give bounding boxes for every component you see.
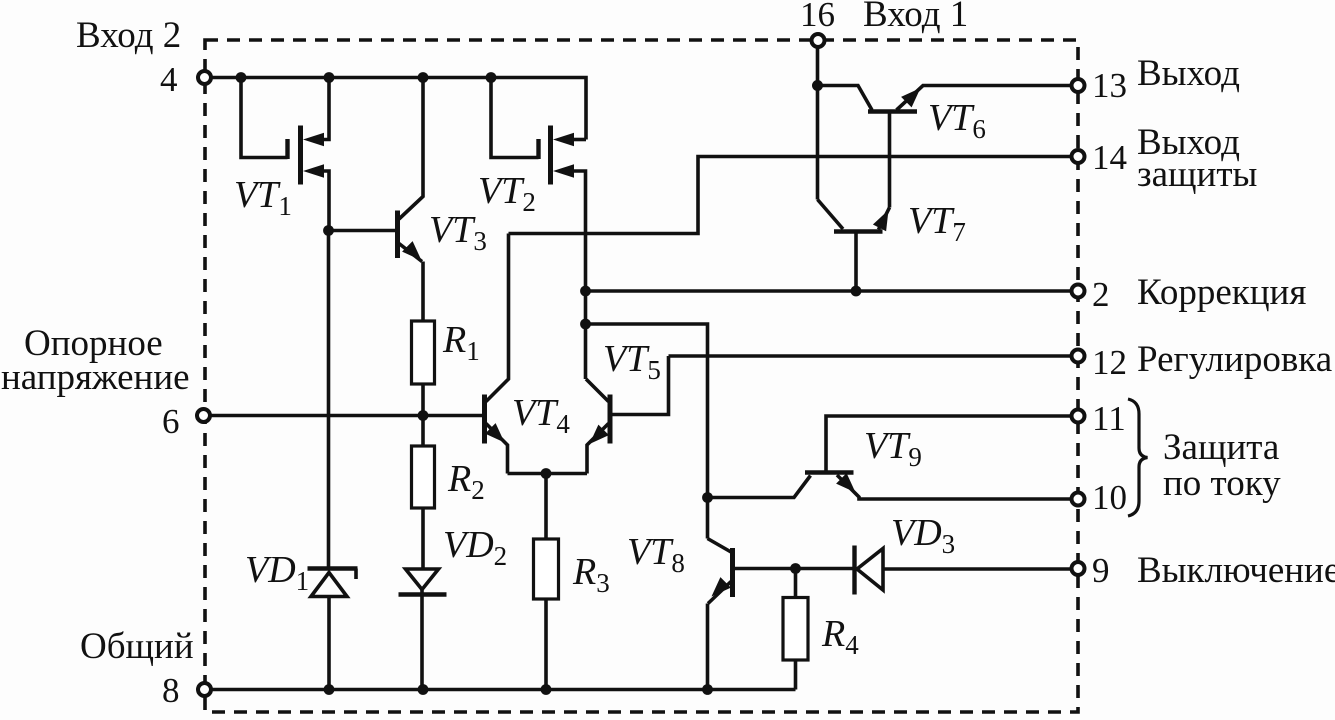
resistor R1 — [412, 321, 435, 384]
transistor VT2 — [491, 78, 586, 380]
transistor VT5 — [586, 356, 669, 474]
svg-text:14: 14 — [1092, 138, 1127, 177]
svg-text:10: 10 — [1092, 478, 1127, 517]
junction VT1 drain on top rail — [324, 72, 335, 83]
wire R3 to bottom rail — [544, 599, 548, 690]
brace pins 11-10 — [1128, 399, 1148, 516]
wire pin 12 line (Регулировка) — [669, 354, 1079, 358]
pin 9 terminal — [1072, 562, 1085, 575]
svg-text:12: 12 — [1092, 343, 1127, 382]
diode VD2 — [399, 569, 447, 690]
junction VT2 gate on top rail — [486, 72, 497, 83]
junction VT7 base on correction line — [851, 286, 862, 297]
resistor R4 — [783, 598, 808, 661]
wire top rail from pin 4 to VT2 drain — [205, 78, 587, 140]
resistor R2 — [412, 446, 435, 508]
junction VT1 source / VT3 base — [323, 225, 334, 236]
junction VT3 collector on top rail — [418, 72, 429, 83]
pin 16 terminal — [812, 34, 825, 47]
svg-text:6: 6 — [162, 402, 180, 441]
junction VD1 on bottom rail — [324, 684, 335, 695]
pin 2 terminal — [1072, 285, 1085, 298]
svg-text:8: 8 — [162, 671, 180, 710]
junction VT9 collector — [702, 492, 713, 503]
junction VT8 emitter on bottom rail — [702, 684, 713, 695]
pin 12 terminal — [1072, 350, 1085, 363]
resistor R3 — [534, 539, 559, 599]
junction VT6 collector on pin 16 riser — [812, 80, 823, 91]
transistor VT9 — [708, 416, 1079, 499]
transistor VT1 — [241, 78, 329, 231]
junction R1 / R2 on pin 6 line — [418, 410, 429, 421]
diode VD3 — [796, 546, 1079, 595]
pin 11 terminal — [1072, 410, 1085, 423]
transistor VT8 — [708, 539, 796, 690]
wire VT4-VT5 emitter join — [508, 472, 588, 476]
wire node to VT8 collector column — [586, 324, 708, 539]
junction VT2 source on correction line — [580, 286, 591, 297]
wire VD1 branch — [327, 231, 331, 569]
zener diode VD1 — [308, 569, 358, 690]
svg-text:9: 9 — [1092, 551, 1110, 590]
transistor VT3 — [329, 78, 424, 322]
svg-text:Вход 2: Вход 2 — [76, 15, 181, 56]
wire R4 leads — [794, 569, 798, 690]
wire VT4 collector to pin 14 (Выход защиты) — [509, 157, 1079, 234]
svg-text:2: 2 — [1092, 275, 1110, 314]
junction VD2 on bottom rail — [418, 684, 429, 695]
svg-text:напряжение: напряжение — [1, 357, 190, 398]
svg-text:Общий: Общий — [80, 626, 194, 667]
junction VT1 gate on top rail — [236, 72, 247, 83]
svg-text:Защита: Защита — [1163, 427, 1279, 468]
svg-text:Вход 1: Вход 1 — [863, 0, 968, 35]
wire VT2 source node to corrections line — [586, 289, 1079, 293]
wire R2 to VD2 — [421, 508, 425, 569]
pin 4 terminal — [198, 71, 211, 84]
svg-text:Регулировка: Регулировка — [1137, 339, 1332, 380]
transistor VT4 — [485, 234, 509, 474]
svg-text:Выключение: Выключение — [1137, 550, 1335, 591]
wire pin 6 line — [204, 414, 484, 418]
pin 13 terminal — [1072, 79, 1085, 92]
svg-text:16: 16 — [800, 0, 835, 34]
svg-text:Коррекция: Коррекция — [1137, 272, 1306, 313]
wire pin 16 riser — [816, 41, 820, 200]
wire join to R3 — [544, 474, 548, 540]
junction node to VT8 collector — [580, 319, 591, 330]
svg-text:защиты: защиты — [1137, 154, 1257, 195]
wire bottom rail — [205, 688, 796, 692]
svg-text:по току: по току — [1163, 463, 1281, 504]
pin 10 terminal — [1072, 493, 1085, 506]
svg-text:11: 11 — [1092, 399, 1126, 438]
wire R1 to node — [421, 384, 425, 446]
svg-text:13: 13 — [1092, 66, 1127, 105]
transistor VT7 — [818, 200, 890, 292]
junction R3 on bottom rail — [541, 684, 552, 695]
pin 6 terminal — [197, 409, 210, 422]
pin 14 terminal — [1072, 150, 1085, 163]
IC dashed border — [205, 40, 1078, 712]
pin 8 terminal — [198, 683, 211, 696]
junction VT4-VT5 emitters / R3 — [541, 468, 552, 479]
junction VT8 base / VD3 / R4 — [790, 563, 801, 574]
svg-text:4: 4 — [160, 60, 178, 99]
svg-text:Выход: Выход — [1137, 53, 1240, 94]
transistor VT6 — [818, 86, 1079, 208]
